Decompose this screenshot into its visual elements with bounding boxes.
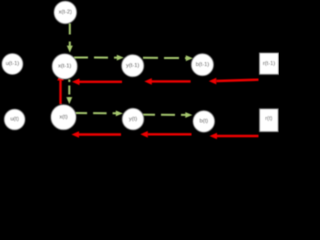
green dashed arrow x(t) to y(t) xyxy=(74,111,123,117)
node x(t-1) xyxy=(52,54,77,79)
red arrow r(t-1) to b(t-1) xyxy=(209,78,259,85)
node b(t-1) xyxy=(191,54,213,76)
red arrow r(t) to b(t) xyxy=(210,133,259,140)
svg-text:x(t): x(t) xyxy=(59,114,67,120)
svg-text:r(t-1): r(t-1) xyxy=(263,61,275,67)
red arrow x(t) to x(t-1) xyxy=(57,74,64,105)
svg-text:u(t-1): u(t-1) xyxy=(6,61,20,67)
svg-text:b(t): b(t) xyxy=(200,119,209,125)
green dashed arrow x(t-2) to x(t-1) xyxy=(67,24,73,53)
green dashed arrow x(t-1) to x(t) xyxy=(66,80,72,105)
red arrow y(t-1) to x(t-1) xyxy=(72,79,122,86)
red arrow b(t-1) to y(t-1) xyxy=(144,78,190,85)
node y(t) xyxy=(122,108,144,130)
svg-text:r(t): r(t) xyxy=(265,116,272,122)
svg-text:u(t): u(t) xyxy=(10,117,19,123)
node r(t) xyxy=(260,109,279,132)
svg-text:y(t-1): y(t-1) xyxy=(126,63,139,69)
svg-text:x(t-1): x(t-1) xyxy=(58,64,71,70)
svg-text:b(t-1): b(t-1) xyxy=(196,62,210,68)
green dashed arrow y(t) to b(t) xyxy=(141,112,192,118)
red arrow b(t) to y(t) xyxy=(140,131,191,138)
node b(t) xyxy=(193,111,215,133)
svg-text:y(t): y(t) xyxy=(129,116,137,122)
node x(t) xyxy=(51,105,76,130)
node x(t-2) xyxy=(54,1,77,24)
node u(t) xyxy=(4,109,25,130)
node r(t-1) xyxy=(260,53,279,74)
red arrow y(t) to x(t) xyxy=(72,131,122,138)
node y(t-1) xyxy=(122,55,144,77)
green dashed arrow y(t-1) to b(t-1) xyxy=(143,55,193,61)
green dashed arrow x(t-1) to y(t-1) xyxy=(74,55,124,61)
node u(t-1) xyxy=(2,54,23,75)
svg-text:x(t-2): x(t-2) xyxy=(59,10,72,16)
